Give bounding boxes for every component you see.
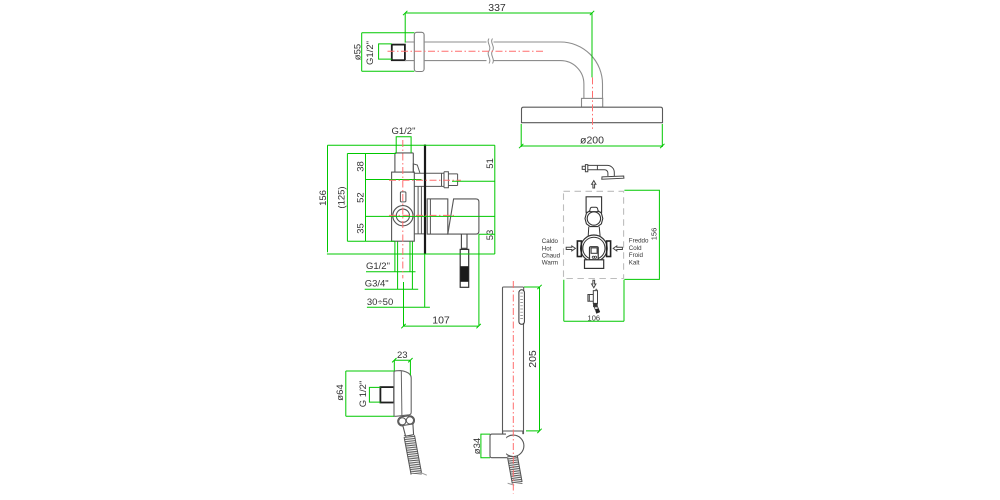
extension lines below body (395, 234, 479, 326)
dimension (125) line (347, 154, 396, 242)
leader G1/2 bottom (366, 271, 416, 273)
handle grip (460, 249, 469, 287)
leader G3/4 (365, 288, 419, 290)
handle stem (461, 234, 467, 249)
wall line (424, 145, 426, 255)
escutcheon inner line (429, 199, 431, 234)
valve cap dome (590, 207, 599, 211)
svg-text:Kalt: Kalt (629, 260, 640, 267)
mini arm icon flange (582, 165, 588, 172)
svg-text:G 1/2": G 1/2" (358, 381, 369, 408)
dimension o64 box (346, 371, 394, 416)
mini handshower nozzle (594, 307, 598, 310)
SECTION: shower arm top (353, 2, 663, 147)
holder cup (490, 434, 508, 458)
elbow body (394, 371, 411, 417)
thread box elbow (369, 387, 380, 402)
dimension o200 (519, 124, 665, 148)
cartridge inner circle (396, 209, 409, 222)
svg-text:Warm: Warm (542, 260, 558, 267)
holder cup outline (490, 434, 508, 458)
mini handshower icon (588, 289, 598, 303)
SECTION: wall elbow (335, 350, 427, 475)
right wing bracket (607, 241, 611, 257)
arrow hot right-pointing (566, 246, 575, 251)
svg-text:38: 38 (355, 161, 366, 172)
valve nut inner circle (587, 212, 600, 225)
dimension 337 ticks (403, 11, 594, 15)
handle stub circles (592, 256, 596, 258)
mini arm icon pipe (588, 165, 615, 176)
centerline cartridge (389, 214, 454, 216)
svg-text:ø64: ø64 (335, 384, 346, 400)
arrow cold left-pointing (613, 246, 622, 251)
valve foot plate (585, 260, 604, 269)
dimension 156 line (327, 145, 495, 254)
hose cone fitting (403, 424, 414, 436)
handle stub inner (591, 248, 597, 253)
centerline head vertical (592, 77, 594, 130)
svg-text:Hot: Hot (542, 245, 552, 252)
dimension 337 line (405, 13, 592, 77)
thread indicator box G1/2 (379, 44, 392, 59)
pipe break symbol (488, 39, 493, 64)
svg-text:35: 35 (355, 223, 366, 234)
SECTION: hand shower (472, 287, 539, 485)
svg-text:107: 107 (432, 315, 450, 327)
svg-text:30÷50: 30÷50 (367, 297, 393, 308)
svg-text:(125): (125) (337, 186, 348, 208)
hand shower handle (503, 287, 524, 434)
svg-text:Cold: Cold (629, 245, 642, 252)
svg-text:G1/2": G1/2" (365, 41, 376, 65)
dimension 23 line (392, 358, 413, 375)
svg-text:Caldo: Caldo (542, 238, 559, 245)
arm pipe (424, 42, 560, 61)
dimension o55 box (362, 33, 415, 71)
mini handshower grip (593, 303, 597, 306)
set screw detail (400, 192, 406, 202)
dimension 38 52 35 line (366, 154, 495, 242)
dimension 51 53 line (452, 145, 495, 254)
centerline mixer vertical (402, 140, 404, 278)
cartridge front inner circle (583, 237, 605, 259)
dimension 205 line (524, 285, 542, 433)
left wing bracket (577, 241, 581, 257)
cartridge front outer circle (581, 235, 608, 262)
SECTION: front view (542, 165, 659, 323)
SECTION: mixer side view (318, 126, 496, 327)
threaded nipple arm (392, 45, 405, 61)
centerline outlet fitting (389, 179, 461, 181)
escutcheon sleeve (427, 199, 448, 234)
sleeve through wall (415, 186, 425, 234)
holder cup top line (503, 431, 524, 434)
svg-text:23: 23 (397, 350, 408, 361)
dashed wall box (564, 191, 624, 278)
overlay dimension lines (327, 11, 665, 494)
svg-text:52: 52 (355, 192, 366, 203)
hose end mark (421, 473, 427, 476)
hose corrugated hand (507, 456, 522, 484)
outlet fitting tube (414, 172, 457, 188)
spray strip texture (520, 293, 523, 319)
svg-text:G1/2": G1/2" (392, 126, 416, 137)
mini handshower nozzle tip (595, 309, 600, 314)
svg-text:156: 156 (650, 228, 659, 241)
elbow face line (400, 371, 403, 416)
pipe stub behind flange (405, 42, 414, 61)
dimension o34 bracket (481, 434, 490, 458)
centerline hand shower (512, 281, 514, 494)
hose nut circle left (399, 418, 406, 425)
body main rect (392, 172, 415, 241)
shower head (522, 107, 663, 123)
leader 30-50 (367, 306, 430, 308)
dimension 107 line (401, 324, 481, 328)
vertical drop pipe (584, 84, 603, 98)
hose nut circle right (406, 417, 413, 424)
hose corrugated elbow (404, 435, 422, 474)
handle body (448, 199, 479, 234)
svg-text:Froid: Froid (629, 252, 644, 259)
svg-text:205: 205 (527, 350, 539, 368)
grip knurled black (460, 266, 468, 282)
svg-text:G1/2": G1/2" (366, 261, 390, 272)
svg-text:337: 337 (488, 2, 506, 14)
cartridge outer circle (393, 206, 413, 226)
thread box G1/2 top (396, 137, 411, 153)
svg-text:Chaud: Chaud (542, 252, 561, 259)
svg-text:G3/4": G3/4" (365, 279, 389, 290)
arrow up (592, 181, 596, 188)
hose nut capsule (398, 416, 415, 426)
svg-text:Freddo: Freddo (629, 238, 649, 245)
top right bevel (413, 164, 420, 173)
wall flange (414, 32, 424, 71)
handle stub (590, 247, 599, 260)
centerline arm horizontal (388, 50, 544, 52)
valve neck (588, 227, 600, 236)
holder ball (503, 435, 524, 456)
svg-text:ø200: ø200 (580, 135, 604, 147)
mini arm icon head (602, 176, 624, 179)
dimension 156 green box right (564, 190, 660, 321)
body top section (395, 153, 413, 172)
spray strip (519, 290, 525, 325)
pipe elbow bend (561, 42, 603, 84)
threaded nipple elbow (380, 387, 394, 402)
valve nut octagon (585, 210, 603, 226)
valve top plate (586, 197, 602, 213)
head collar (582, 98, 603, 107)
hose end mark hand (508, 483, 515, 485)
arrow down outlet (592, 280, 596, 287)
